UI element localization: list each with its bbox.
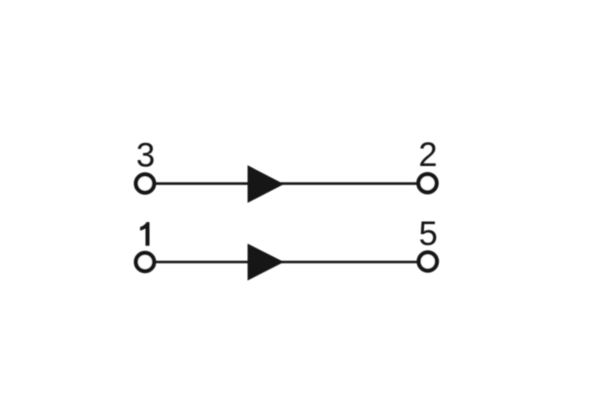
terminal pin 1 bbox=[136, 253, 154, 271]
terminal pin 5 bbox=[419, 252, 437, 270]
arrow A2 (signal direction, bottom) bbox=[248, 244, 284, 281]
wire (pin 3 to pin 2, top) bbox=[145, 182, 428, 185]
wire (pin 1 to pin 5, bottom) bbox=[145, 261, 428, 264]
pin label 1 bbox=[140, 222, 149, 246]
svg-text:3: 3 bbox=[136, 136, 155, 174]
terminal pin 2 bbox=[418, 174, 436, 192]
svg-text:5: 5 bbox=[419, 215, 438, 253]
terminal pin 3 bbox=[136, 174, 154, 192]
svg-text:2: 2 bbox=[419, 136, 438, 174]
arrow A1 (signal direction, top) bbox=[248, 165, 284, 203]
